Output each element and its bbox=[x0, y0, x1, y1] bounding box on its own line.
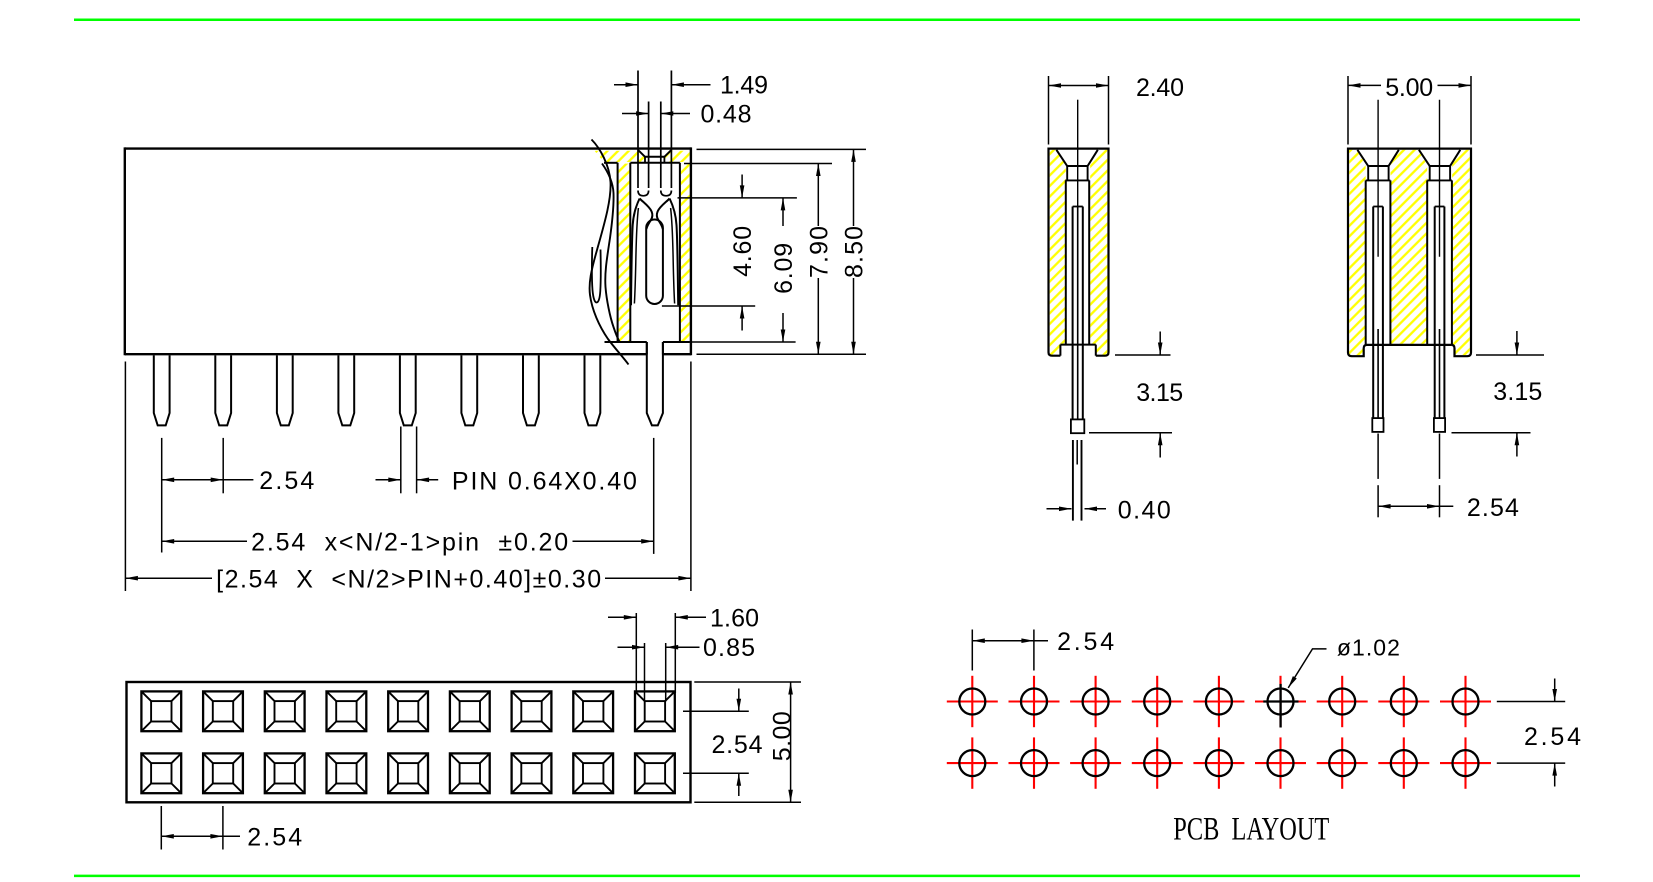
pin 1 bbox=[154, 355, 170, 425]
pcb hole r1c6 black centerlines bbox=[1263, 684, 1298, 728]
side1 funnel bbox=[1056, 150, 1097, 166]
socket square r2c2 bbox=[203, 753, 243, 793]
pcb hole r1c6 bbox=[1255, 676, 1306, 727]
svg-text:3.15: 3.15 bbox=[1136, 379, 1183, 407]
socket square r1c8 bbox=[573, 691, 613, 731]
pcb hole r2c4 bbox=[1132, 737, 1183, 788]
side1 pin left edge bbox=[1072, 207, 1074, 420]
svg-text:2.40: 2.40 bbox=[1136, 74, 1184, 102]
hatch side1 right wall bbox=[1090, 150, 1107, 355]
pin 6 bbox=[461, 355, 477, 425]
side2 body right edge and right foot bbox=[1451, 148, 1471, 357]
side2 pin 1 crimp box bbox=[1372, 418, 1383, 432]
side1 solder tail right bbox=[1081, 440, 1083, 521]
socket square r2c8 bbox=[573, 753, 613, 793]
socket square r1c9 bbox=[635, 691, 675, 731]
body outline left bbox=[124, 147, 126, 355]
pcb hole diameter leader ø1.02 bbox=[1288, 649, 1326, 688]
svg-text:[2.54 X <N/2>PIN+0.40]±0.30: [2.54 X <N/2>PIN+0.40]±0.30 bbox=[216, 565, 601, 593]
pcb hole r2c2 bbox=[1009, 737, 1060, 788]
pcb hole r2c8 bbox=[1378, 737, 1429, 788]
dim 1.49 bbox=[614, 84, 711, 86]
socket square r2c4 bbox=[327, 753, 367, 793]
pcb hole r1c2 bbox=[1009, 676, 1060, 727]
side1 dim 0.40 bbox=[1047, 508, 1107, 510]
break line inner curve bbox=[602, 164, 620, 342]
pcb hole r2c1 bbox=[947, 737, 998, 788]
svg-text:2.54: 2.54 bbox=[1524, 723, 1581, 751]
side1 pin middle edge bbox=[1077, 207, 1079, 420]
socket square r1c5 bbox=[388, 691, 428, 731]
side2 pin 2 crimp box bbox=[1434, 418, 1445, 432]
socket square r1c1 bbox=[141, 691, 181, 731]
break line S-curve outer bbox=[590, 140, 629, 365]
side2 funnel 2 hole walls bbox=[1429, 166, 1431, 180]
pin exit slot wall right bbox=[662, 342, 664, 355]
bottom view dim 0.85 bbox=[618, 643, 700, 702]
side1 body right edge with bottom corner bbox=[1096, 148, 1109, 356]
svg-text:5.00: 5.00 bbox=[1385, 74, 1433, 102]
svg-text:2.54: 2.54 bbox=[712, 731, 763, 759]
svg-text:1.60: 1.60 bbox=[710, 604, 759, 632]
socket square r2c5 bbox=[388, 753, 428, 793]
dim [2.54 X (N/2)PIN+0.40]±0.30 bbox=[125, 577, 691, 579]
side1 standoff notch left wall bbox=[1059, 345, 1061, 356]
pcb dim 2.54 col pitch bbox=[972, 630, 1048, 671]
dim 2.54 pin pitch bbox=[162, 479, 254, 481]
svg-text:ø1.02: ø1.02 bbox=[1337, 635, 1400, 661]
funnel hole left wall bbox=[644, 157, 646, 163]
dim 2.54 x(N/2-1)pin ±0.20 bbox=[162, 540, 654, 542]
lower dims extension lines bbox=[125, 362, 691, 592]
side2 pin 2 bbox=[1435, 207, 1445, 419]
right side stacked dims ext lines bbox=[662, 149, 866, 354]
body outline top bbox=[125, 147, 691, 149]
side1 centerline bbox=[1077, 100, 1079, 207]
side2 funnel 1 bbox=[1357, 150, 1398, 166]
svg-text:2.54: 2.54 bbox=[1467, 494, 1519, 522]
side1 standoff notch right wall bbox=[1095, 345, 1097, 356]
section left wall left edge bbox=[617, 163, 619, 341]
section left wall right edge bbox=[629, 163, 631, 341]
pin 4 bbox=[338, 355, 354, 425]
hatch: section left wall bbox=[619, 164, 630, 342]
side1 cavity wall left bbox=[1065, 180, 1067, 344]
svg-text:0.40: 0.40 bbox=[1118, 497, 1171, 525]
pcb hole r1c7 bbox=[1317, 676, 1368, 727]
contact tab inner-left (ext line for 0.48) bbox=[648, 102, 650, 189]
contact slot (stadium) bbox=[646, 220, 663, 304]
side2 body left edge and left foot bbox=[1348, 148, 1367, 357]
bottom view dim 5.00 bbox=[694, 682, 801, 802]
side1 pin right edge bbox=[1082, 207, 1084, 420]
hatch: section right wall bbox=[681, 164, 690, 342]
partial 8th contact slot (teardrop) bbox=[592, 247, 601, 303]
svg-text:7.90: 7.90 bbox=[805, 226, 833, 278]
pin 9 (below section) bbox=[647, 342, 663, 425]
body outline right bbox=[690, 147, 692, 355]
socket square r2c7 bbox=[512, 753, 552, 793]
contact tab left U-foot bbox=[638, 191, 649, 196]
side1 dim 2.40 bbox=[1049, 76, 1109, 145]
body outline bottom bbox=[125, 353, 647, 355]
svg-text:PCB LAYOUT: PCB LAYOUT bbox=[1173, 811, 1329, 847]
side1 solder tail middle bbox=[1076, 440, 1078, 465]
side2 centerline 1 bbox=[1377, 100, 1379, 257]
pin 8 bbox=[585, 355, 601, 425]
contact tab outer-right (ext line for 1.49) bbox=[670, 71, 672, 189]
side1 crimp box bbox=[1071, 419, 1084, 433]
pcb hole r1c3 bbox=[1070, 676, 1121, 727]
pin exit slot wall left bbox=[646, 342, 648, 355]
side1 body left edge with bottom corner bbox=[1049, 148, 1061, 356]
side1 solder tail left bbox=[1072, 440, 1074, 521]
pcb hole r1c8 bbox=[1378, 676, 1429, 727]
contact left prong outer edge bbox=[631, 199, 640, 306]
socket square r2c6 bbox=[450, 753, 490, 793]
svg-text:3.15: 3.15 bbox=[1493, 378, 1542, 406]
pin 3 bbox=[277, 355, 293, 425]
hatch side1 left wall bbox=[1050, 150, 1066, 355]
svg-text:6.09: 6.09 bbox=[770, 243, 798, 294]
pcb hole r1c1 bbox=[947, 676, 998, 727]
socket square r2c3 bbox=[265, 753, 305, 793]
socket square r1c3 bbox=[265, 691, 305, 731]
hatch: section top band left of funnel bbox=[595, 151, 645, 162]
svg-text:2.54 x<N/2-1>pin ±0.20: 2.54 x<N/2-1>pin ±0.20 bbox=[251, 529, 568, 557]
svg-text:0.48: 0.48 bbox=[701, 101, 752, 129]
dim 8.50 bbox=[853, 149, 855, 354]
svg-text:8.50: 8.50 bbox=[841, 226, 869, 278]
svg-text:2.54: 2.54 bbox=[1057, 628, 1114, 656]
pcb hole r1c5 bbox=[1193, 676, 1244, 727]
pcb hole r2c6 bbox=[1255, 737, 1306, 788]
contact left prong inner edge with contact bump bbox=[640, 199, 653, 230]
hatch side2 center wall bbox=[1391, 150, 1428, 344]
cavity floor line right bbox=[663, 341, 690, 343]
pcb hole r2c3 bbox=[1070, 737, 1121, 788]
socket square r2c1 bbox=[141, 753, 181, 793]
green border line top bbox=[74, 18, 1580, 21]
side1 dim 3.15 bbox=[1089, 332, 1172, 458]
side1 shoulder line bbox=[1060, 344, 1095, 346]
pcb hole r2c5 bbox=[1193, 737, 1244, 788]
bottom view dim 2.54 col pitch bbox=[161, 806, 240, 850]
svg-text:2.54: 2.54 bbox=[259, 467, 314, 495]
side1 funnel hole walls bbox=[1066, 166, 1068, 180]
side2 recessed bottom line bbox=[1367, 344, 1451, 346]
side2 dim 3.15 bbox=[1452, 331, 1545, 457]
dim PIN 0.64X0.40 bbox=[376, 479, 439, 481]
pcb dim 2.54 row pitch bbox=[1497, 679, 1565, 787]
socket square r1c6 bbox=[450, 691, 490, 731]
contact tab outer-left (ext line for 1.49) bbox=[637, 71, 639, 189]
hatch side2 left wall bbox=[1349, 150, 1365, 355]
contact tab right U-foot bbox=[661, 191, 672, 196]
cavity floor line left bbox=[605, 341, 647, 343]
svg-text:0.85: 0.85 bbox=[703, 634, 755, 662]
dim 0.48 bbox=[622, 113, 690, 115]
side2 funnel 2 bbox=[1419, 150, 1460, 166]
side2 dim 2.54 bbox=[1378, 434, 1453, 518]
contact right prong outer edge bbox=[670, 199, 679, 306]
cavity ceiling line bbox=[604, 162, 618, 164]
side1 pin top bbox=[1073, 206, 1083, 208]
side2 cavity 2 top ledge bbox=[1427, 179, 1452, 181]
dim 7.90 bbox=[817, 164, 819, 355]
side2 dim 5.00 bbox=[1348, 76, 1471, 145]
side2 body top bbox=[1348, 148, 1471, 150]
socket square r1c2 bbox=[203, 691, 243, 731]
contact right prong middle line bbox=[671, 208, 675, 304]
side1 body top bbox=[1049, 148, 1109, 150]
side2 cavity 1 top ledge bbox=[1366, 179, 1391, 181]
dim 6.09 bbox=[782, 198, 784, 342]
svg-text:5.00: 5.00 bbox=[769, 711, 797, 761]
bottom view dim 2.54 row pitch bbox=[683, 689, 749, 797]
pin 7 bbox=[523, 355, 539, 425]
side1 cavity wall right bbox=[1088, 180, 1090, 344]
side2 funnel 1 hole walls bbox=[1367, 166, 1369, 180]
pin 2 bbox=[215, 355, 231, 425]
hatch: section top band right of funnel bbox=[665, 151, 690, 162]
funnel entry chamfer bbox=[638, 150, 672, 157]
pin 5 bbox=[400, 355, 416, 425]
side2 pin 1 bbox=[1373, 207, 1383, 419]
contact tab inner-right (ext line for 0.48) bbox=[660, 102, 662, 189]
socket square r1c7 bbox=[512, 691, 552, 731]
side2 centerline 2 bbox=[1439, 100, 1441, 257]
bottom view body rectangle bbox=[127, 682, 691, 802]
side1 cavity top ledge bbox=[1065, 179, 1089, 181]
contact left prong middle line bbox=[634, 208, 638, 304]
contact right prong inner edge with contact bump bbox=[657, 199, 670, 230]
svg-text:1.49: 1.49 bbox=[720, 72, 768, 100]
funnel hole right wall bbox=[663, 157, 665, 163]
dim 4.60 bbox=[741, 175, 743, 331]
pcb hole r2c9 bbox=[1440, 737, 1491, 788]
pcb hole r1c4 bbox=[1132, 676, 1183, 727]
pcb hole r1c9 bbox=[1440, 676, 1491, 727]
svg-text:PIN 0.64X0.40: PIN 0.64X0.40 bbox=[452, 467, 637, 495]
section right cavity wall bbox=[679, 163, 681, 341]
bottom view dim 1.60 bbox=[608, 613, 706, 693]
svg-text:2.54: 2.54 bbox=[247, 823, 302, 851]
svg-text:4.60: 4.60 bbox=[729, 226, 757, 277]
green border line bottom bbox=[74, 875, 1580, 878]
socket square r1c4 bbox=[327, 691, 367, 731]
side2 cavity walls bbox=[1366, 180, 1452, 345]
pcb hole r2c7 bbox=[1317, 737, 1368, 788]
hatch side2 right wall bbox=[1452, 150, 1470, 355]
socket square r2c9 bbox=[635, 753, 675, 793]
